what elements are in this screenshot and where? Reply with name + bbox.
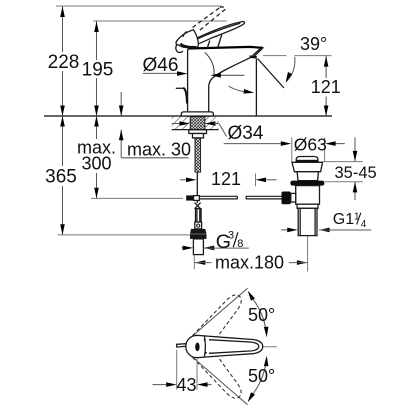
- svg-text:50°: 50°: [248, 305, 275, 325]
- svg-text:Ø63: Ø63: [294, 135, 327, 155]
- svg-text:43: 43: [176, 375, 196, 395]
- svg-text:max.180: max.180: [215, 252, 284, 272]
- svg-text:Ø46: Ø46: [143, 55, 179, 76]
- svg-text:121: 121: [211, 169, 241, 189]
- svg-text:3: 3: [228, 230, 234, 242]
- svg-text:max. 30: max. 30: [127, 140, 191, 160]
- svg-text:35-45: 35-45: [335, 164, 377, 182]
- svg-text:228: 228: [48, 52, 80, 73]
- svg-text:365: 365: [45, 167, 77, 188]
- svg-text:121: 121: [311, 77, 341, 97]
- svg-text:300: 300: [81, 154, 111, 174]
- svg-text:50°: 50°: [248, 366, 275, 386]
- svg-text:Ø34: Ø34: [228, 123, 264, 144]
- svg-text:39°: 39°: [300, 34, 327, 54]
- svg-text:195: 195: [82, 60, 114, 81]
- svg-text:8: 8: [237, 238, 243, 250]
- svg-text:4: 4: [361, 219, 367, 230]
- svg-text:G1: G1: [333, 211, 354, 228]
